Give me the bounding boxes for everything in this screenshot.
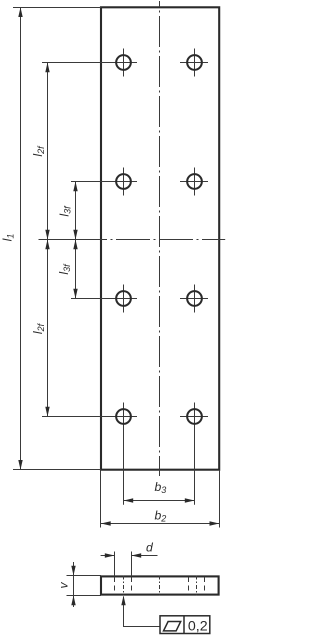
svg-text:0,2: 0,2 xyxy=(188,618,208,634)
svg-text:v: v xyxy=(57,582,71,589)
